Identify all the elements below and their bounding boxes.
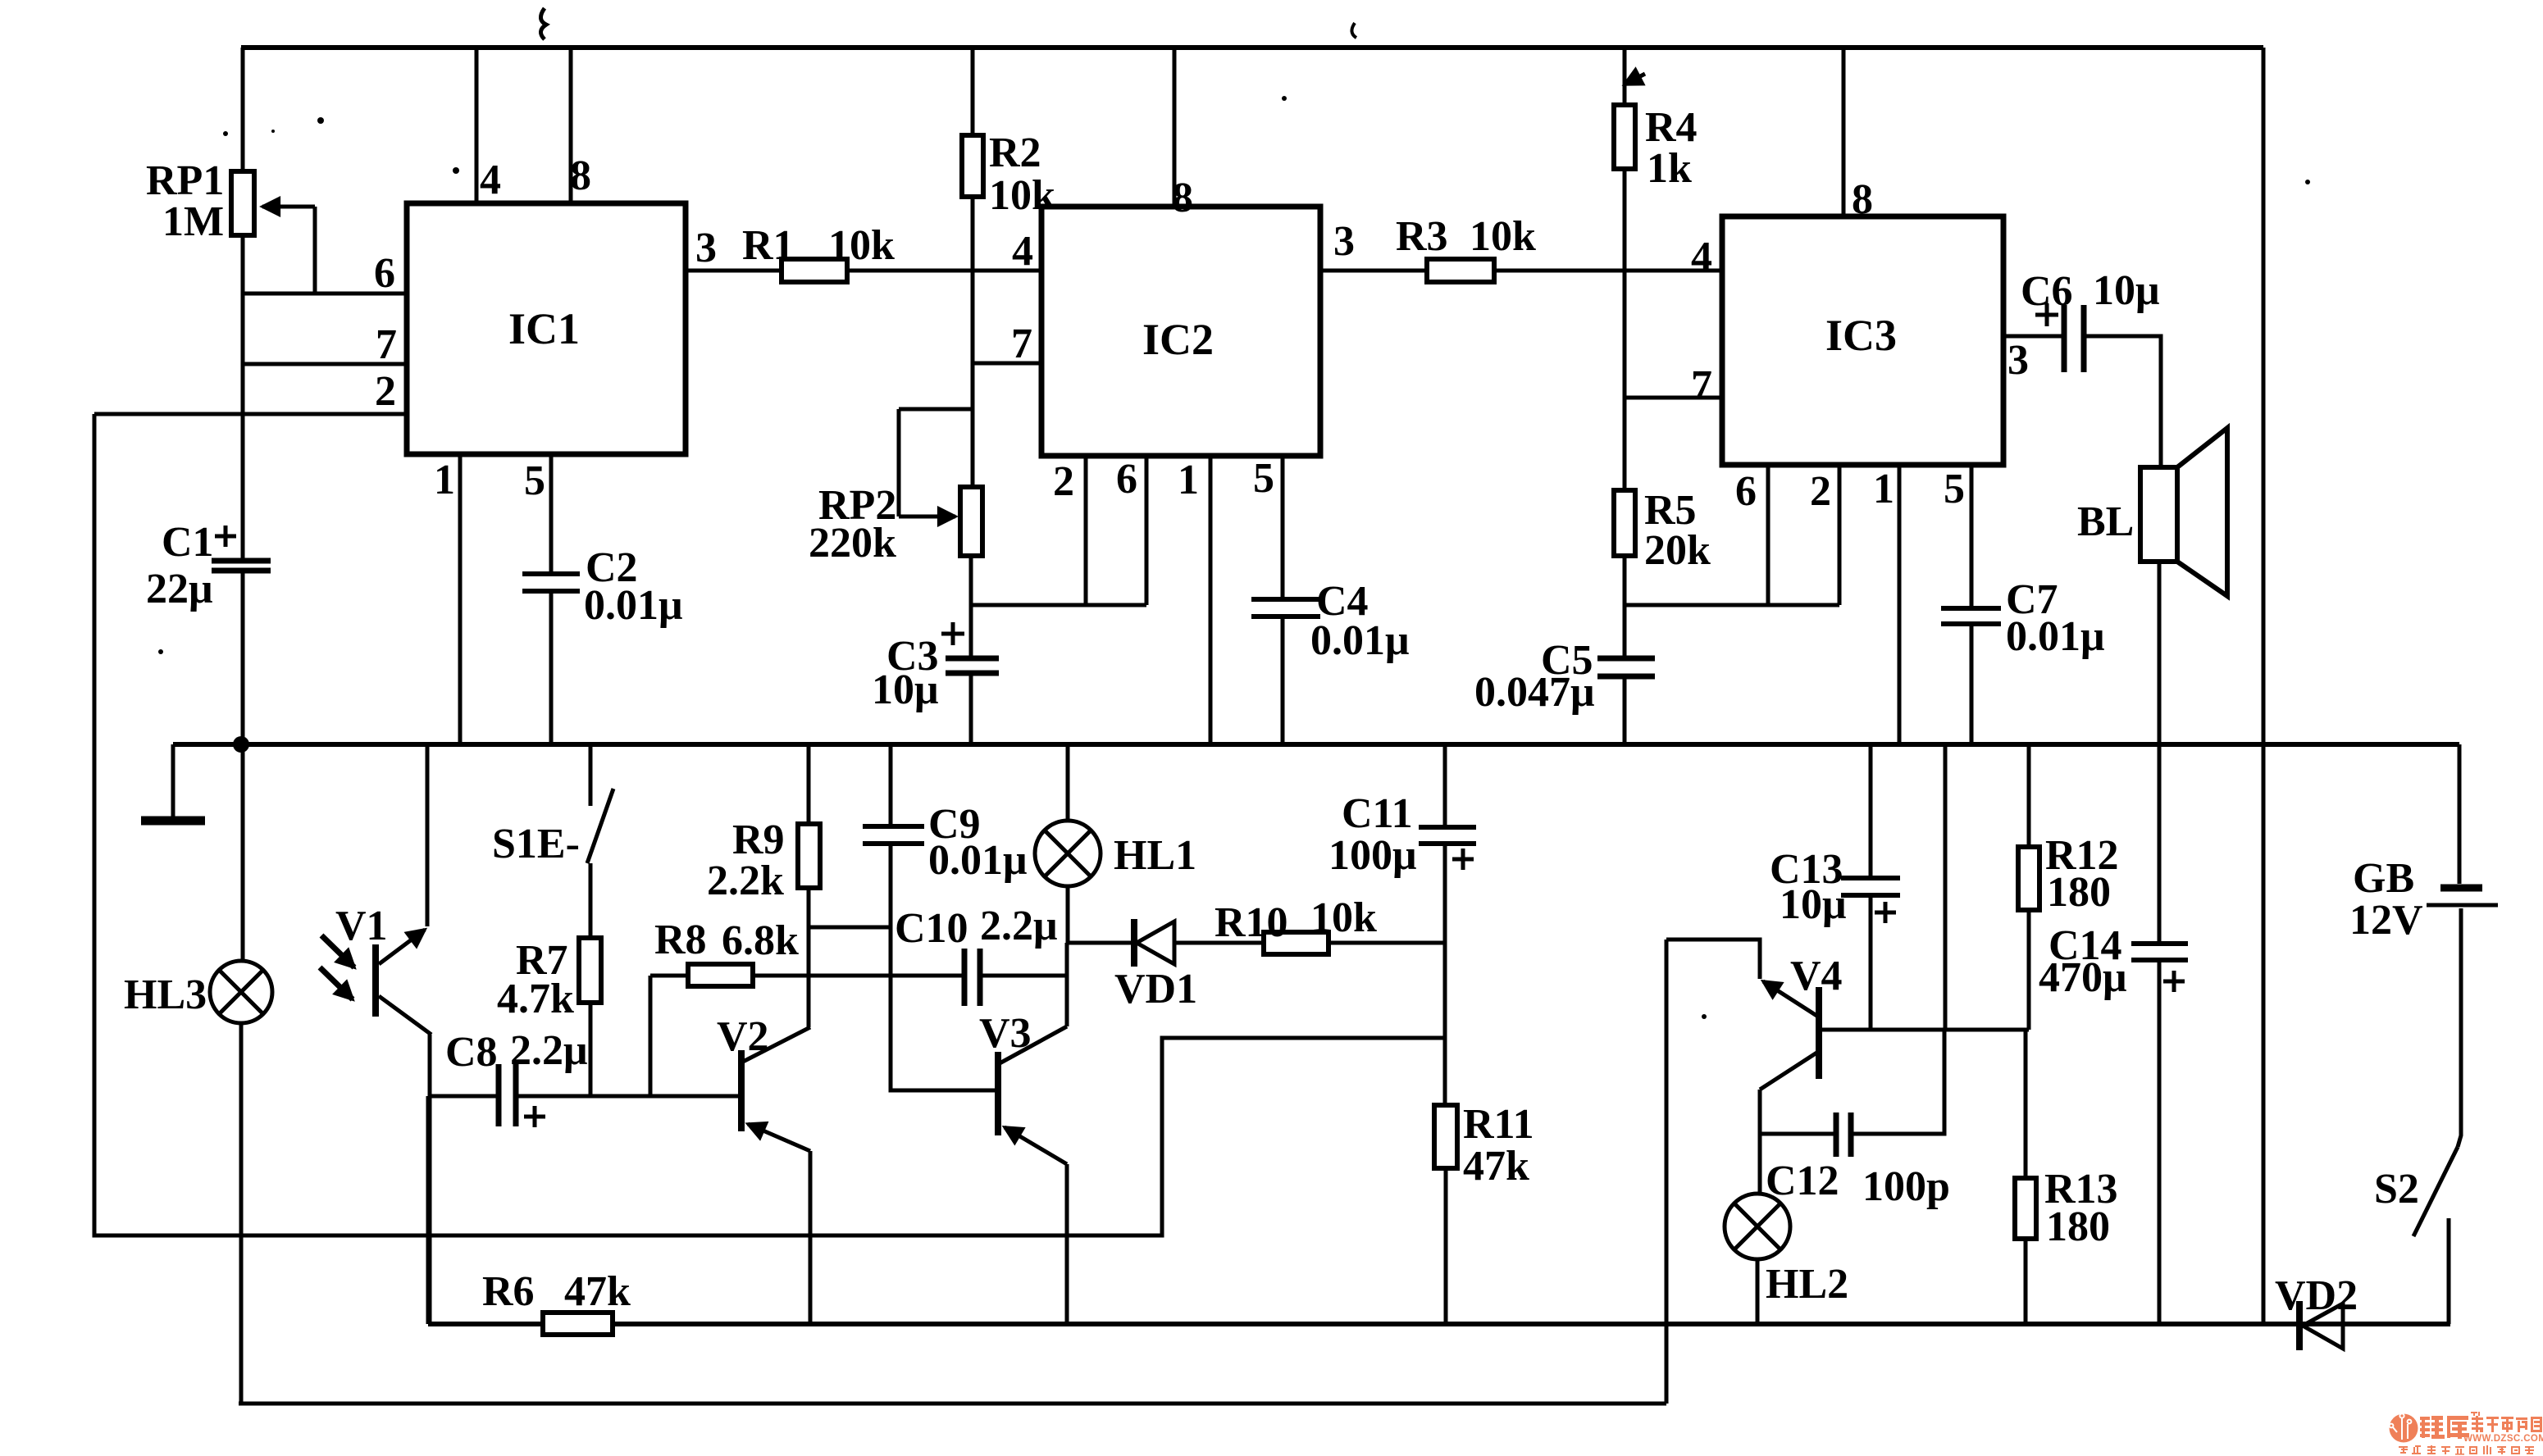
capacitor C6 bbox=[2062, 305, 2067, 372]
svg-text:1: 1 bbox=[1873, 466, 1894, 512]
IC U1 box IC1 bbox=[407, 203, 686, 454]
potentiometer RP1 bbox=[231, 171, 254, 235]
node junction dot on bus bbox=[233, 736, 249, 753]
svg-text:4: 4 bbox=[1012, 228, 1033, 275]
wire IC3 pin1 to bus bbox=[1898, 465, 1902, 744]
svg-text:VD2: VD2 bbox=[2275, 1272, 2358, 1319]
wire V1 emitter down to C8 node and R6 bbox=[428, 1035, 432, 1324]
svg-text:S1E-: S1E- bbox=[492, 821, 580, 867]
wire bus to R9 bbox=[807, 744, 811, 824]
svg-text:2.2k: 2.2k bbox=[707, 858, 784, 904]
wire S1 to R7 bbox=[589, 863, 593, 938]
svg-text:2.2μ: 2.2μ bbox=[510, 1027, 587, 1074]
resistor R1 bbox=[782, 259, 847, 282]
switch S2 bbox=[2413, 1147, 2458, 1236]
svg-text:10k: 10k bbox=[828, 222, 895, 269]
wire bus to C14 bbox=[2158, 744, 2162, 941]
svg-text:5: 5 bbox=[1944, 466, 1965, 512]
svg-text:R10: R10 bbox=[1215, 899, 1288, 946]
svg-text:C10: C10 bbox=[895, 905, 968, 952]
TM bbox=[2471, 1412, 2477, 1413]
wire bottom ground bus bbox=[428, 1322, 2450, 1326]
svg-text:22μ: 22μ bbox=[146, 566, 212, 612]
wire C3 to bus bbox=[969, 676, 973, 744]
capacitor C4 bbox=[1251, 597, 1320, 602]
capacitor C9 bbox=[863, 824, 924, 829]
wire V3 emitter to ground bus bbox=[1065, 1164, 1069, 1324]
svg-text:IC1: IC1 bbox=[508, 304, 580, 353]
svg-text:3: 3 bbox=[695, 225, 717, 271]
svg-text:2.2μ: 2.2μ bbox=[980, 903, 1057, 949]
wire bus corner down to battery bbox=[2458, 744, 2462, 884]
wire pins6+2 tie to R5 line bbox=[1625, 603, 1839, 607]
resistor R8 bbox=[688, 964, 753, 986]
wire IC1 pin6 bbox=[243, 292, 407, 296]
wire C14 to ground bus bbox=[2158, 962, 2162, 1324]
svg-text:R3: R3 bbox=[1396, 213, 1448, 260]
wire R13 to ground bus bbox=[2024, 1239, 2028, 1324]
svg-text:R6: R6 bbox=[482, 1268, 535, 1315]
wire IC3 pin7 bbox=[1625, 396, 1722, 400]
svg-text:BL: BL bbox=[2077, 498, 2134, 545]
svg-text:2: 2 bbox=[375, 368, 396, 415]
light arrows into V1 bbox=[321, 935, 354, 967]
svg-text:VD1: VD1 bbox=[1114, 966, 1197, 1012]
wire V4 base rail bbox=[1822, 1028, 2029, 1032]
svg-text:WWW.DZSC.COM: WWW.DZSC.COM bbox=[2463, 1434, 2543, 1444]
wire HL1 node to VD1 bbox=[1067, 941, 1132, 945]
wire C9 down to V3 base bbox=[891, 846, 997, 1090]
wire RP1 bottom to C1 bbox=[241, 235, 245, 558]
svg-text:R8: R8 bbox=[654, 917, 707, 963]
wire HL2 to ground bus bbox=[1756, 1259, 1760, 1324]
wire speaker to bus bbox=[2158, 562, 2162, 744]
resistor R6 bbox=[543, 1313, 613, 1335]
wire R2 top from rail bbox=[971, 48, 975, 135]
wire R2 bottom through pin4 node down to IC2 pin7 and RP2 bbox=[971, 197, 975, 487]
resistor R7 bbox=[579, 938, 601, 1003]
svg-text:1k: 1k bbox=[1647, 145, 1692, 192]
svg-text:GB: GB bbox=[2353, 855, 2414, 902]
IC U3 box IC3 bbox=[1722, 216, 2003, 465]
svg-text:47k: 47k bbox=[564, 1268, 631, 1315]
transistor V4 bbox=[1816, 987, 1822, 1079]
wire bus to C13 bbox=[1869, 744, 1873, 876]
potentiometer RP2 bbox=[960, 487, 982, 556]
resistor R5 bbox=[1614, 490, 1635, 556]
capacitor C2 bbox=[522, 571, 580, 576]
wire IC1 pin4 bbox=[475, 48, 479, 203]
svg-text:8: 8 bbox=[1852, 176, 1873, 223]
svg-text:R1: R1 bbox=[742, 222, 795, 269]
wire IC3 pin6 drop bbox=[1766, 465, 1771, 605]
svg-text:6: 6 bbox=[1116, 456, 1137, 503]
wire IC2 pin5 to C4 bbox=[1281, 456, 1285, 597]
watermark logo 维库电子市场网 bbox=[2390, 1412, 2543, 1455]
svg-text:V3: V3 bbox=[979, 1010, 1032, 1057]
wire IC1 pin7 bbox=[243, 362, 407, 366]
resistor R3 bbox=[1427, 259, 1494, 282]
svg-text:C1: C1 bbox=[162, 519, 214, 566]
labels top-left bbox=[124, 104, 2423, 1018]
wire bus to HL1 bbox=[1066, 744, 1070, 821]
svg-text:2: 2 bbox=[1053, 458, 1074, 505]
lamp HL1 bbox=[1035, 821, 1101, 886]
capacitor C3 bbox=[946, 656, 999, 662]
wire IC1 pin2 bbox=[94, 412, 407, 416]
wire bottom-most return line bbox=[239, 1402, 1666, 1406]
wire IC2 pin8 bbox=[1173, 48, 1177, 207]
wire C1 to HL3 bbox=[241, 573, 245, 962]
svg-text:HL1: HL1 bbox=[1114, 832, 1196, 879]
wire right border from top rail down to bottom bus bbox=[2262, 48, 2266, 1324]
svg-text:R11: R11 bbox=[1463, 1101, 1534, 1148]
wire IC2 pin3 to R3 bbox=[1320, 269, 1427, 273]
wire HL1 to VD1 node bbox=[1066, 886, 1070, 943]
svg-text:10k: 10k bbox=[989, 172, 1055, 219]
svg-text:0.01μ: 0.01μ bbox=[1310, 617, 1409, 664]
wire C10 left to R8/R9 node bbox=[810, 974, 964, 978]
svg-text:12V: 12V bbox=[2349, 897, 2423, 944]
diode VD2 bbox=[2296, 1301, 2303, 1350]
wire C8 to V2 base bbox=[517, 1094, 741, 1099]
wire battery to switch S2 bbox=[2458, 908, 2461, 1147]
svg-text:1: 1 bbox=[1178, 457, 1199, 503]
wire C4 to bus bbox=[1281, 619, 1285, 744]
wire IC3 pin5 to C7 bbox=[1970, 465, 1974, 606]
wire IC3 pin3 to C6 bbox=[2003, 334, 2064, 339]
svg-text:C12: C12 bbox=[1766, 1158, 1839, 1204]
svg-text:47k: 47k bbox=[1463, 1143, 1529, 1190]
wire IC2 pin7 bbox=[973, 362, 1041, 366]
wire C12 left bbox=[1760, 1132, 1834, 1136]
svg-text:6: 6 bbox=[374, 250, 395, 297]
wire R6 corner from V1 emitter line bbox=[426, 1096, 431, 1324]
wire RP2 bottom to C3 bbox=[969, 556, 973, 656]
svg-text:7: 7 bbox=[1011, 321, 1032, 367]
wire bus to C11 bbox=[1443, 744, 1447, 825]
transistor V3 bbox=[995, 1052, 1001, 1135]
svg-text:IC2: IC2 bbox=[1142, 315, 1214, 364]
wire C11 down through R10 node and jog node to R11 bbox=[1443, 846, 1447, 1105]
svg-text:8: 8 bbox=[1172, 175, 1193, 221]
svg-text:0.01μ: 0.01μ bbox=[584, 582, 682, 629]
svg-text:V2: V2 bbox=[717, 1013, 769, 1060]
wire R11 to ground bus bbox=[1444, 1168, 1448, 1324]
ground bbox=[171, 744, 175, 818]
wire R4 bottom through R3 node to R5 bbox=[1623, 169, 1627, 490]
wire R3 to IC3 pin4 bbox=[1494, 269, 1722, 273]
transistor V1 phototransistor bbox=[372, 944, 379, 1017]
wire R1 to IC2 pin4 bbox=[847, 269, 1041, 273]
svg-text:10k: 10k bbox=[1470, 213, 1536, 260]
svg-text:180: 180 bbox=[2046, 1203, 2110, 1250]
wire V3 collector up to VD1 wire bbox=[1065, 943, 1069, 1026]
transistor V2 bbox=[738, 1050, 745, 1131]
svg-text:10μ: 10μ bbox=[2093, 267, 2159, 314]
wire IC1 pin1 to bus bbox=[458, 454, 463, 744]
lamp HL2 bbox=[1725, 1194, 1790, 1259]
svg-text:C6: C6 bbox=[2021, 268, 2073, 315]
svg-text:7: 7 bbox=[1691, 362, 1712, 409]
lamp HL3 bbox=[210, 961, 272, 1023]
diode VD1 bbox=[1131, 919, 1137, 967]
svg-text:V1: V1 bbox=[335, 903, 388, 949]
fake CJK glyph 库 bbox=[2447, 1416, 2468, 1420]
resistor R2 bbox=[962, 135, 983, 197]
svg-text:220k: 220k bbox=[809, 520, 896, 566]
wire IC1 pin5 to C2 bbox=[549, 454, 554, 571]
svg-text:3: 3 bbox=[2008, 337, 2029, 384]
wire cross tie R9 line to C9 line bbox=[810, 926, 891, 930]
resistor R11 bbox=[1434, 1105, 1457, 1168]
fake CJK tagline 专业电子元器件交易网站 bbox=[2399, 1445, 2534, 1455]
svg-text:HL3: HL3 bbox=[124, 971, 207, 1018]
wire IC2 pin6 drop bbox=[1145, 456, 1149, 605]
wire bus stub to V4 base rail bbox=[1944, 744, 1948, 1030]
scan speckles bbox=[158, 8, 2310, 1019]
svg-text:RP1: RP1 bbox=[146, 157, 224, 204]
svg-text:6: 6 bbox=[1735, 468, 1757, 515]
svg-text:10μ: 10μ bbox=[1780, 881, 1846, 928]
svg-text:IC3: IC3 bbox=[1825, 311, 1897, 360]
capacitor C5 bbox=[1597, 656, 1655, 662]
svg-text:V4: V4 bbox=[1790, 953, 1843, 999]
svg-text:R4: R4 bbox=[1645, 104, 1698, 151]
svg-text:4: 4 bbox=[480, 157, 501, 203]
wire V4 emitter up and over to down-lead bbox=[1666, 940, 1760, 979]
wire base rail to R13 bbox=[2024, 1030, 2028, 1178]
svg-text:180: 180 bbox=[2047, 869, 2111, 916]
resistor R10 bbox=[1264, 932, 1328, 954]
wire IC2 pin1 to bus bbox=[1209, 456, 1213, 744]
wire top supply rail bbox=[241, 45, 2263, 50]
resistor R9 bbox=[798, 824, 820, 888]
svg-text:7: 7 bbox=[376, 321, 397, 368]
svg-text:R9: R9 bbox=[732, 817, 785, 863]
svg-text:4.7k: 4.7k bbox=[497, 976, 574, 1022]
svg-text:10k: 10k bbox=[1310, 894, 1377, 941]
wire V4 emitter lead down to bottom-most line bbox=[1665, 940, 1669, 1404]
wire left feedback path from IC1 pin2 down and around to C11 node bbox=[94, 414, 1445, 1235]
fake CJK 电子市场网 small bbox=[2472, 1416, 2542, 1432]
svg-text:3: 3 bbox=[1333, 218, 1355, 265]
svg-text:0.01μ: 0.01μ bbox=[928, 837, 1027, 884]
wire C2 to bus bbox=[549, 594, 554, 744]
wire V2 emitter to ground bus bbox=[809, 1151, 813, 1324]
svg-text:100μ: 100μ bbox=[1328, 832, 1416, 879]
battery GB bbox=[2440, 885, 2482, 892]
wire C6 to speaker bbox=[2084, 336, 2161, 467]
svg-text:6.8k: 6.8k bbox=[722, 917, 799, 964]
fake CJK glyph 维 bbox=[2420, 1417, 2430, 1420]
capacitor C10 bbox=[962, 949, 968, 1006]
wire bus to R12 bbox=[2027, 744, 2031, 847]
svg-text:5: 5 bbox=[524, 457, 545, 504]
capacitor C7 bbox=[1941, 606, 2001, 611]
wire VD1 to R10 bbox=[1174, 941, 1264, 945]
resistor R12 bbox=[2018, 847, 2039, 910]
wire R8 left jog down to V2 base wire bbox=[649, 976, 653, 1096]
svg-text:0.01μ: 0.01μ bbox=[2006, 613, 2104, 660]
wire HL3 to bottom-most line bbox=[239, 1023, 244, 1404]
switch S1 from bus bbox=[589, 744, 593, 806]
wire C13 to V4 base rail bbox=[1869, 898, 1873, 1030]
capacitor C8 bbox=[496, 1064, 502, 1126]
capacitor C13 bbox=[1841, 876, 1900, 880]
wire R8 right to V2 collector line bbox=[753, 974, 810, 978]
wire bus to V1 collector bbox=[426, 744, 430, 926]
wire R7 to C8 node bbox=[589, 1003, 593, 1096]
svg-text:4: 4 bbox=[1691, 234, 1712, 280]
wire C7 to bus bbox=[1970, 626, 1974, 744]
svg-text:10μ: 10μ bbox=[872, 667, 938, 713]
wire C12 node to HL2 bbox=[1758, 1134, 1762, 1195]
wire C10 right to V3 collector line bbox=[980, 974, 1067, 978]
wire IC3 pin2 drop bbox=[1838, 465, 1842, 605]
svg-text:5: 5 bbox=[1253, 455, 1274, 502]
svg-text:1: 1 bbox=[434, 457, 455, 503]
speaker BL bbox=[2140, 467, 2177, 562]
wire C12 right up to base rail bbox=[1853, 1030, 1944, 1134]
wire RP1/C1/HL3 left vertical bbox=[241, 48, 245, 171]
wire IC1 pin3 to R1 bbox=[686, 269, 782, 273]
svg-text:20k: 20k bbox=[1644, 527, 1711, 574]
wire R10 to C11 line bbox=[1328, 941, 1445, 945]
wire bus to C9 bbox=[889, 744, 893, 824]
svg-text:100p: 100p bbox=[1862, 1163, 1950, 1210]
wire IC1 pin8 bbox=[569, 48, 573, 203]
wire IC2 pin2 drop bbox=[1084, 456, 1088, 605]
svg-text:470μ: 470μ bbox=[2039, 954, 2126, 1001]
capacitor C14 bbox=[2131, 941, 2188, 946]
capacitor C11 bbox=[1419, 825, 1476, 830]
svg-text:C11: C11 bbox=[1342, 790, 1413, 837]
wire V4 collector down to C12 node bbox=[1758, 1090, 1762, 1134]
wire R12 to base rail bbox=[2027, 910, 2031, 1030]
wire IC3 pin8 bbox=[1842, 48, 1846, 216]
svg-text:C8: C8 bbox=[445, 1029, 498, 1076]
capacitor C1 bbox=[212, 558, 271, 564]
resistor R4 bbox=[1614, 105, 1635, 169]
wire R5 to C5 bbox=[1623, 556, 1627, 656]
svg-text:R2: R2 bbox=[989, 130, 1041, 176]
resistor R13 bbox=[2015, 1178, 2036, 1239]
wire pins2+6 tie to RP2 line bbox=[971, 603, 1146, 607]
wire C8 node to C8 bbox=[430, 1094, 497, 1099]
svg-text:2: 2 bbox=[1810, 468, 1831, 515]
svg-text:HL2: HL2 bbox=[1766, 1261, 1848, 1308]
wire R9 bottom to V2 collector bbox=[807, 888, 811, 1027]
svg-text:1M: 1M bbox=[162, 198, 224, 245]
svg-text:S2: S2 bbox=[2374, 1166, 2419, 1213]
svg-text:0.047μ: 0.047μ bbox=[1474, 669, 1594, 716]
wire R4 top from rail with stray arrow mark bbox=[1623, 48, 1627, 105]
wire mid V+ bus rail bbox=[173, 742, 2459, 747]
IC U2 box IC2 bbox=[1041, 207, 1320, 456]
wire C5 to bus bbox=[1623, 679, 1627, 744]
capacitor C12 bbox=[1834, 1112, 1839, 1157]
svg-text:8: 8 bbox=[570, 152, 591, 199]
